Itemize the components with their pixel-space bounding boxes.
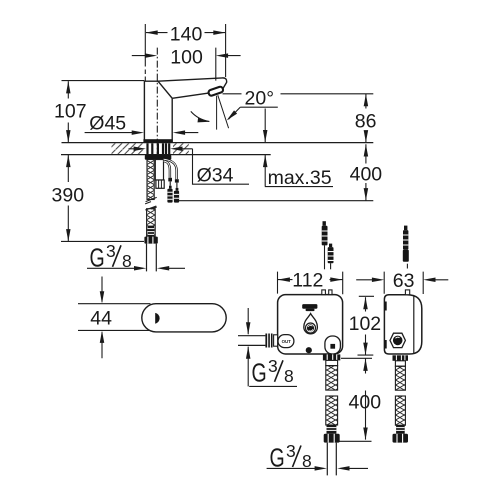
dim 140 (145, 24, 225, 81)
svg-text:G: G (252, 357, 267, 387)
cable plug above side box (406, 264, 408, 269)
label D34 (129, 149, 250, 184)
svg-text:3: 3 (286, 441, 296, 461)
faucet body outline (144, 78, 226, 143)
out tube (238, 336, 265, 346)
dim 112 (278, 272, 343, 295)
counter deck bottom line (61, 154, 271, 156)
box top stubs (322, 290, 326, 295)
dim 390 (61, 155, 144, 242)
svg-text:86: 86 (355, 111, 377, 133)
control box side view (384, 295, 421, 354)
svg-text:400: 400 (349, 391, 382, 413)
hose nut G3/8 (144, 237, 157, 244)
supply hose braided upper (147, 160, 154, 200)
cable plug above box 1 (324, 245, 326, 269)
svg-text:Ø45: Ø45 (89, 113, 126, 135)
svg-text:63: 63 (393, 270, 415, 292)
faucet top view oval (142, 304, 226, 332)
svg-text:8: 8 (284, 366, 294, 386)
dim 63 (356, 272, 448, 294)
label G3/8 second (248, 308, 297, 386)
svg-text:400: 400 (350, 163, 383, 185)
front box braided hose (326, 366, 338, 391)
svg-text:140: 140 (170, 24, 203, 46)
supply hose braided lower (147, 209, 156, 237)
front end tube (327, 443, 336, 476)
side box braided hose (395, 366, 405, 390)
side knob (390, 333, 405, 347)
screw dot (306, 347, 312, 353)
side hose end nut (393, 434, 409, 443)
cable plug above box 2 (330, 263, 332, 269)
faucet aerator (208, 86, 224, 96)
front box hose nut (323, 354, 340, 360)
sensor cable 2 (164, 159, 177, 179)
dim 400 lower right (329, 358, 372, 441)
svg-text:3: 3 (106, 241, 116, 261)
dim 100 (132, 48, 241, 159)
control box front view (278, 295, 343, 354)
dim 44 (78, 277, 154, 359)
grohe logo bar (302, 304, 317, 309)
connection tube (147, 244, 157, 272)
angle 20 deg rays (217, 95, 229, 129)
front hose end nut (324, 434, 340, 443)
dim 107 (62, 81, 145, 143)
side hose crimp (396, 425, 405, 434)
out hex fitting (265, 334, 273, 348)
svg-text:3: 3 (268, 356, 278, 376)
dim 400 upper right (179, 144, 373, 201)
IN port (325, 336, 341, 354)
label max.35 (265, 109, 333, 187)
side box hose nut (393, 355, 409, 361)
faucet base plate (143, 139, 172, 143)
svg-text:OUT: OUT (282, 339, 292, 344)
threaded shank through deck (148, 143, 170, 154)
svg-text:20°: 20° (245, 87, 275, 109)
svg-text:112: 112 (292, 270, 323, 292)
mounting flange nut (145, 155, 172, 160)
shank tube (155, 160, 163, 181)
water drop symbol (304, 314, 318, 334)
svg-text:390: 390 (52, 185, 85, 207)
angle 20 deg arc (191, 111, 210, 121)
plug connector 1 (168, 178, 172, 182)
svg-text:44: 44 (90, 307, 112, 329)
svg-text:107: 107 (54, 101, 87, 123)
sensor window (155, 313, 159, 324)
plug connector 2 (175, 179, 179, 182)
svg-text:max.35: max.35 (268, 167, 332, 189)
front hose crimp (327, 425, 337, 434)
hose crimp (148, 226, 155, 237)
OUT port (278, 335, 294, 348)
dim 102 (358, 296, 375, 355)
deck hatching (112, 143, 144, 154)
svg-text:102: 102 (349, 313, 382, 335)
dim 86 (223, 94, 374, 143)
svg-text:100: 100 (170, 47, 203, 69)
counter deck top line (62, 142, 374, 144)
svg-text:Ø34: Ø34 (197, 165, 234, 187)
sensor cable 1 (164, 161, 170, 178)
